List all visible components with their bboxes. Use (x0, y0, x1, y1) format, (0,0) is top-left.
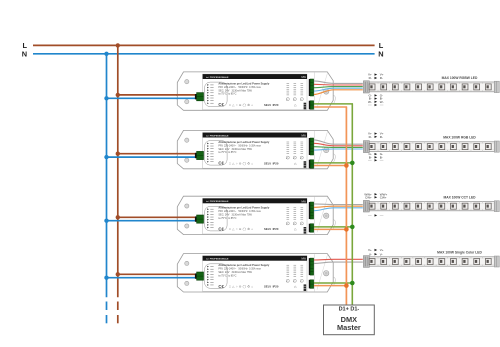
PSU2 DMX terminal block (2-pole) (309, 160, 314, 169)
PSU2 certification marks row (CE SELV IP20) (218, 161, 297, 166)
LED strip 1 body (369, 82, 494, 92)
svg-text:SEC: 24V 3130mA Max 75W: SEC: 24V 3130mA Max 75W (218, 89, 252, 92)
svg-text:N: N (22, 50, 27, 59)
LED strip 4 max load label (437, 251, 482, 255)
svg-text:□△○⊝◯♻⌂: □△○⊝◯♻⌂ (229, 227, 254, 231)
LED driver PSU3 body (177, 196, 333, 234)
PSU1 mains input terminal (195, 93, 204, 101)
PSU1 DMX terminal block (2-pole) (309, 101, 314, 110)
strip 3 pin labels WW+ CW+ (364, 192, 387, 199)
PSU3 mains input terminal (195, 215, 204, 223)
svg-text:SELV IP20: SELV IP20 (264, 161, 279, 165)
svg-text:R-: R- (369, 135, 372, 139)
wire N branch to PSU4 (107, 277, 200, 279)
svg-text:Alimentazione per Led/Led Powe: Alimentazione per Led/Led Power Supply (218, 81, 269, 85)
label N (right) (378, 50, 383, 59)
wire L mains bus (33, 44, 375, 46)
LED strip 2 end connector (494, 141, 499, 152)
PSU3 label header bar (tci logo) (203, 198, 307, 203)
LED strip 3 max load label (443, 195, 476, 199)
LED strip 1 end connector (494, 81, 499, 92)
wire DMX green bus vertical run (351, 104, 353, 305)
svg-text:MW: MW (301, 134, 306, 138)
LED strip 4 end connector (494, 256, 499, 267)
svg-text:□△○⊝◯♻⌂: □△○⊝◯♻⌂ (229, 103, 254, 107)
PSU2 label header bar (tci logo) (203, 133, 307, 138)
svg-text:□△○⊝◯♻⌂: □△○⊝◯♻⌂ (229, 285, 254, 289)
svg-text:V+: V+ (368, 248, 372, 252)
svg-text:SEC: 24V 3130mA Max 75W: SEC: 24V 3130mA Max 75W (218, 148, 252, 151)
PSU1 DMX address switch columns (286, 84, 303, 101)
strip 2 pin labels V+ R- (368, 132, 384, 139)
svg-text:R-: R- (369, 76, 372, 80)
junction DMX orange bus / PSU2 (344, 163, 349, 168)
svg-text:□△○⊝◯♻⌂: □△○⊝◯♻⌂ (229, 161, 254, 165)
wire PSU2 mains pigtail (176, 154, 200, 157)
PSU4 mounting screw holes (185, 261, 189, 285)
wire DMX orange branch PSU3 (314, 228, 347, 230)
wire bundle PSU4 output to LED strip 4 (314, 259, 363, 263)
PSU3 DMX address switch columns (286, 208, 303, 225)
svg-text:C€: C€ (218, 284, 224, 289)
wire L branch to PSU3 (118, 216, 200, 218)
PSU3 label barcode (304, 227, 307, 234)
strip 1 pin labels V+ R- (368, 73, 384, 80)
wire bundle PSU3 output to LED strip 3 (314, 204, 363, 211)
PSU3 DMX terminal block (2-pole) (309, 224, 314, 233)
PSU3 label text block (218, 206, 269, 220)
wire DMX orange branch PSU2 (314, 165, 347, 167)
junction N bus tap (104, 52, 108, 56)
PSU4 output terminal block (5-pole) (309, 258, 314, 275)
wire N vertical feeder (106, 54, 108, 324)
LED strip 3 body (369, 202, 494, 211)
LED strip 2 body (369, 142, 494, 152)
PSU1 input pinout diagram (205, 82, 228, 107)
svg-text:SELV IP20: SELV IP20 (264, 103, 279, 107)
DMX master controller (324, 305, 375, 335)
LED driver PSU2 body (177, 130, 333, 168)
PSU1 label header bar (tci logo) (203, 74, 307, 79)
LED strip 1 max load label (442, 76, 478, 80)
PSU4 input pinout diagram (205, 264, 228, 289)
wire PSU4 mains pigtail (176, 274, 200, 277)
svg-text:W-: W- (368, 100, 372, 104)
svg-text:L: L (23, 41, 28, 50)
PSU3 cable gland (324, 213, 329, 218)
label N (left) (22, 50, 27, 59)
PSU4 DMX terminal block (2-pole) (309, 280, 314, 289)
PSU2 mains input terminal (195, 151, 204, 159)
PSU4 DMX address switch columns (286, 265, 303, 282)
LED strip 4 body (369, 257, 494, 266)
PSU3 mounting screw holes (185, 204, 189, 228)
wire bundle PSU1 output to LED strip 1 (314, 81, 363, 95)
PSU2 product label (203, 133, 307, 169)
PSU4 right end-cap mould lines (314, 254, 335, 291)
PSU2 label barcode (304, 161, 307, 168)
svg-text:N: N (378, 50, 383, 59)
junction DMX green bus / PSU2 (350, 161, 355, 166)
svg-text:MAX 100W CCT LED: MAX 100W CCT LED (443, 195, 476, 199)
label L (left) (23, 41, 28, 50)
junction L feeder / PSU1 branch (116, 93, 120, 97)
LED strip 3 SMD chips (369, 203, 491, 209)
junction DMX green bus / PSU3 (350, 225, 355, 230)
svg-text:Alimentazione per Led/Led Powe: Alimentazione per Led/Led Power Supply (218, 263, 269, 267)
wire DMX D1+ orange bus from PSU1 (314, 107, 347, 305)
PSU1 label text block (218, 81, 269, 95)
PSU3 input pinout diagram (205, 206, 228, 231)
svg-text:SELV IP20: SELV IP20 (264, 227, 279, 231)
junction N feeder / PSU2 branch (104, 155, 108, 159)
LED strip 1 SMD chips (369, 84, 491, 90)
svg-text:MW: MW (301, 257, 306, 261)
PSU2 input pinout diagram (205, 141, 228, 166)
wire DMX green branch PSU2 (314, 162, 353, 164)
PSU1 mounting screw holes (185, 80, 189, 104)
label L (right) (379, 41, 384, 50)
wire DMX D1- green bus from PSU1 (314, 104, 353, 305)
svg-text:B-: B- (380, 155, 383, 159)
svg-text:Alimentazione per Led/Led Powe: Alimentazione per Led/Led Power Supply (218, 140, 269, 144)
svg-text:MW: MW (301, 75, 306, 79)
svg-text:SELV IP20: SELV IP20 (264, 285, 279, 289)
svg-text:R-: R- (380, 76, 383, 80)
svg-text:PRI: 220-240V~ 50/60Hz 0.35: PRI: 220-240V~ 50/60Hz 0.35A max (218, 210, 261, 213)
PSU2 mounting screw holes (185, 138, 189, 162)
PSU1 right end-cap mould lines (314, 73, 335, 110)
wire DMX green branch PSU4 (314, 282, 353, 284)
svg-text:PRI: 220-240V~ 50/60Hz 0.35: PRI: 220-240V~ 50/60Hz 0.35A max (218, 268, 261, 271)
LED strip 2 SMD chips (369, 144, 491, 150)
PSU4 certification marks row (CE SELV IP20) (218, 284, 297, 289)
wire N branch to PSU3 (107, 220, 200, 222)
PSU4 label text block (218, 263, 269, 277)
PSU1 cable gland (324, 89, 329, 94)
svg-text:MAX 100W RGBW LED: MAX 100W RGBW LED (442, 76, 478, 80)
svg-text:PRI: 220-240V~ 50/60Hz 0.35: PRI: 220-240V~ 50/60Hz 0.35A max (218, 144, 261, 147)
PSU4 label barcode (304, 284, 307, 291)
wire N branch to PSU2 (107, 156, 200, 158)
PSU3 output terminal block (5-pole) (309, 202, 314, 219)
svg-text:MW: MW (301, 199, 306, 203)
wire L branch to PSU2 (118, 153, 200, 155)
LED strip 3 end connector (494, 201, 499, 212)
LED strip 1 input connector (363, 81, 369, 93)
strip 2 pin labels G- B- (368, 152, 383, 161)
svg-text:C€: C€ (218, 102, 224, 107)
svg-text:V+: V+ (380, 248, 384, 252)
junction N feeder / PSU3 branch (104, 219, 108, 223)
junction DMX orange bus / PSU4 (344, 283, 349, 288)
LED strip 3 input connector (363, 200, 369, 212)
LED strip 4 input connector (363, 256, 369, 268)
svg-text:R-: R- (380, 135, 383, 139)
junction L feeder / PSU4 branch (116, 272, 120, 276)
PSU2 right end-cap mould lines (314, 131, 335, 168)
svg-text:SEC: 24V 3130mA Max 75W: SEC: 24V 3130mA Max 75W (218, 271, 252, 274)
svg-text:ta 75°C tc 85°C: ta 75°C tc 85°C (218, 151, 236, 154)
junction DMX green bus / PSU4 (350, 281, 355, 286)
svg-text:V-: V- (380, 252, 383, 256)
svg-text:Alimentazione per Led/Led Powe: Alimentazione per Led/Led Power Supply (218, 206, 269, 210)
svg-text:SEC: 24V 3130mA Max 75W: SEC: 24V 3130mA Max 75W (218, 214, 252, 217)
svg-text:L: L (379, 41, 384, 50)
PSU4 label header bar (tci logo) (203, 256, 307, 261)
PSU2 label text block (218, 140, 269, 154)
PSU4 mains input terminal (195, 272, 204, 280)
PSU1 certification marks row (CE SELV IP20) (218, 102, 297, 107)
PSU2 cable gland (324, 147, 329, 152)
svg-text:C€: C€ (218, 161, 224, 166)
svg-text:ta 75°C tc 85°C: ta 75°C tc 85°C (218, 274, 236, 277)
strip 3 lower pin arrow (368, 214, 383, 216)
PSU4 cable gland (324, 271, 329, 276)
svg-text:ta 75°C tc 85°C: ta 75°C tc 85°C (218, 217, 236, 220)
LED strip 2 max load label (443, 136, 476, 140)
wire PSU3 mains pigtail (176, 217, 200, 220)
svg-text:Master: Master (337, 323, 361, 332)
svg-text:CW+: CW+ (380, 195, 387, 199)
LED driver PSU4 body (177, 254, 333, 292)
LED strip 4 SMD chips (369, 259, 491, 265)
wire PSU1 mains pigtail (176, 95, 200, 98)
svg-text:D1+ D1-: D1+ D1- (339, 306, 360, 312)
PSU1 label barcode (304, 103, 307, 110)
wire DMX green branch PSU3 (314, 226, 353, 228)
LED driver PSU1 body (177, 72, 333, 110)
svg-text:CW+: CW+ (365, 195, 372, 199)
svg-text:MAX 100W Single Color LED: MAX 100W Single Color LED (437, 251, 482, 255)
wire bundle PSU2 output to LED strip 2 (314, 140, 363, 150)
wire N branch to PSU1 (107, 97, 200, 99)
strip 4 pin labels V+ V- (368, 248, 384, 256)
junction N feeder / PSU4 branch (104, 276, 108, 280)
junction DMX orange bus / PSU3 (344, 227, 349, 232)
svg-text:MAX 100W RGB LED: MAX 100W RGB LED (443, 136, 476, 140)
wire N mains bus (33, 53, 375, 55)
junction N feeder / PSU1 branch (104, 96, 108, 100)
junction L feeder / PSU3 branch (116, 215, 120, 219)
svg-text:PRI: 220-240V~ 50/60Hz 0.35: PRI: 220-240V~ 50/60Hz 0.35A max (218, 86, 261, 89)
svg-text:C€: C€ (218, 226, 224, 231)
wire L branch to PSU1 (118, 94, 200, 96)
junction L bus tap (116, 43, 120, 47)
PSU2 output terminal block (5-pole) (309, 138, 314, 155)
svg-text:B-: B- (369, 155, 372, 159)
svg-text:V-: V- (369, 252, 372, 256)
wire DMX orange bus vertical run (345, 107, 347, 305)
PSU2 DMX address switch columns (286, 142, 303, 159)
strip 1 pin labels G- B- W- (368, 94, 384, 107)
wire L vertical feeder (117, 45, 119, 323)
PSU3 right end-cap mould lines (314, 197, 335, 234)
PSU1 output terminal block (5-pole) (309, 79, 314, 96)
wire L branch to PSU4 (118, 273, 200, 275)
wire DMX orange branch PSU4 (314, 285, 347, 287)
PSU1 product label (203, 74, 307, 110)
PSU4 product label (203, 256, 307, 292)
PSU3 product label (203, 198, 307, 234)
svg-text:ta 75°C tc 85°C: ta 75°C tc 85°C (218, 93, 236, 96)
LED strip 2 input connector (363, 141, 369, 153)
svg-text:W-: W- (380, 100, 384, 104)
PSU3 certification marks row (CE SELV IP20) (218, 226, 297, 231)
junction L feeder / PSU2 branch (116, 152, 120, 156)
